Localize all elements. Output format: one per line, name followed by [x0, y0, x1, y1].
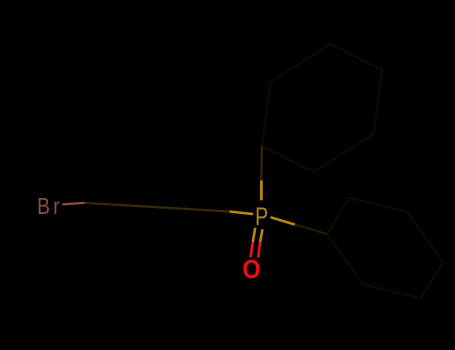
- svg-text:Br: Br: [37, 193, 63, 219]
- double bond P=O : line 2 red lower half: [258, 242, 260, 258]
- ghost phenyl ring C (right, very faint): [327, 198, 443, 299]
- bond P-C gold half (right): [271, 217, 295, 224]
- wire: C half of P-C(right phenyl) bond, faint: [295, 225, 327, 235]
- bond Br-C red half: [62, 203, 85, 205]
- svg-text:O: O: [242, 256, 260, 284]
- ghost phenyl ring B (top, very faint): [262, 44, 382, 172]
- wire: C half of P-C(top phenyl) bond, faint: [260, 146, 263, 181]
- double bond P=O : line 1 red lower half: [251, 242, 253, 257]
- bond P-C gold half (up): [260, 181, 263, 201]
- svg-text:P: P: [255, 202, 268, 230]
- wire: edge-on bromophenyl ring axis (faint olive line from Br bond to P bond): [85, 203, 230, 212]
- bond C-P gold half (left): [230, 212, 254, 215]
- double bond P=O : line 2 gold upper half: [260, 229, 262, 242]
- double bond P=O : line 1 gold upper half: [253, 228, 255, 242]
